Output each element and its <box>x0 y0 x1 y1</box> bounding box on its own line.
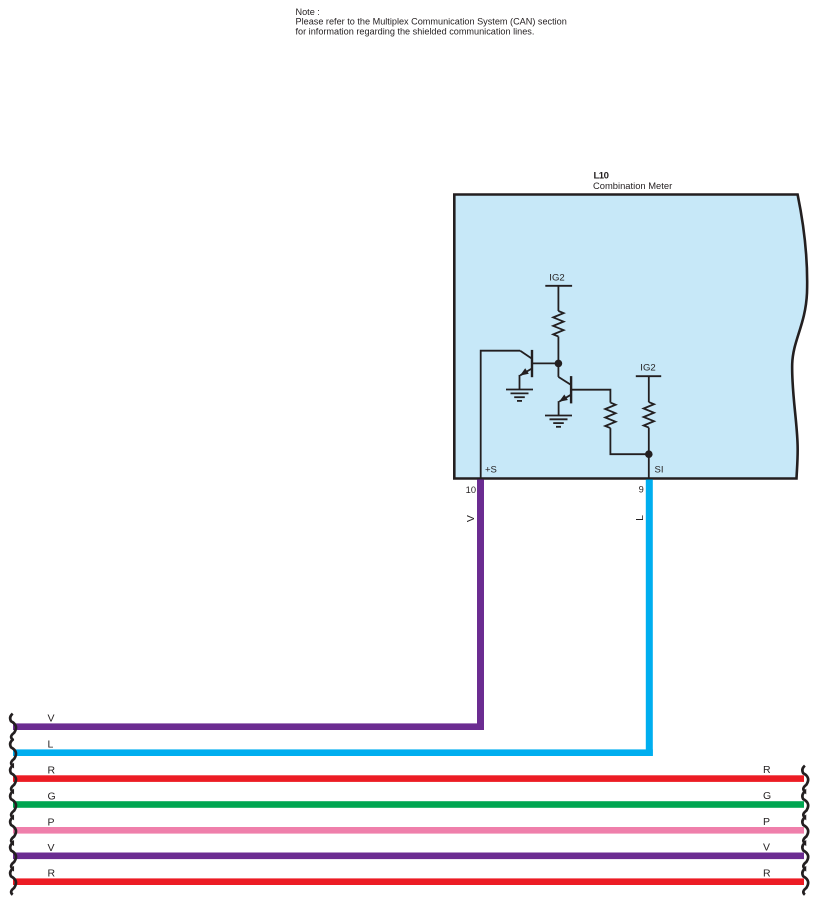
svg-text:R: R <box>763 867 771 879</box>
wire +S pin to Q1 collector <box>481 351 521 479</box>
wire IG2 bar to resistor R3 <box>648 376 650 402</box>
svg-text:for information regarding the: for information regarding the shielded c… <box>296 27 535 37</box>
power IG2 (left branch) <box>545 272 572 286</box>
svg-text:SI: SI <box>655 465 664 476</box>
svg-text:R: R <box>48 868 56 880</box>
svg-text:+S: +S <box>485 465 497 476</box>
svg-text:9: 9 <box>639 485 644 495</box>
svg-text:G: G <box>763 790 771 802</box>
wire V (violet) from pin 10 <box>13 480 484 731</box>
svg-text:R: R <box>48 765 56 777</box>
svg-text:L: L <box>634 515 646 521</box>
wire color labels left <box>48 713 56 880</box>
transistor Q2 <box>558 376 571 415</box>
wire IG2 bar to resistor <box>557 286 559 311</box>
svg-text:V: V <box>48 842 55 854</box>
wire node to SI pin <box>648 454 650 478</box>
resistor R2 <box>605 403 615 429</box>
svg-text:Please refer to the Multiplex: Please refer to the Multiplex Communicat… <box>296 17 567 27</box>
svg-text:L: L <box>48 739 54 751</box>
wire R (red) row 3 <box>13 775 804 782</box>
node SI junction <box>645 450 653 458</box>
wire V (violet) row 6 <box>13 853 804 860</box>
svg-text:V: V <box>465 515 477 522</box>
svg-text:R: R <box>763 764 771 776</box>
ground (Q1 emitter) <box>506 390 533 401</box>
note text <box>296 7 567 37</box>
svg-text:IG2: IG2 <box>640 363 655 374</box>
svg-text:IG2: IG2 <box>549 272 564 283</box>
break symbol right (wire bundle continuation) <box>802 766 808 895</box>
svg-text:P: P <box>763 816 770 828</box>
transistor Q1 <box>520 350 533 390</box>
wire color labels right <box>763 764 771 879</box>
svg-text:Combination Meter: Combination Meter <box>593 180 672 191</box>
wire Q2 base to resistor R2 <box>571 390 610 403</box>
connector box L10 Combination Meter <box>454 195 807 479</box>
svg-text:V: V <box>763 841 770 853</box>
resistor (left IG2 branch) <box>553 311 563 337</box>
svg-text:G: G <box>48 791 56 803</box>
wire resistor to node <box>557 337 559 364</box>
wire R3 to node SI <box>648 428 650 455</box>
svg-text:10: 10 <box>466 485 476 495</box>
resistor R3 <box>644 402 654 428</box>
wire R (red) row 7 <box>13 878 804 885</box>
wire P (pink) row 5 <box>13 827 804 834</box>
node (Q1 base junction) <box>555 360 563 368</box>
wire Q1 base to node <box>532 362 558 364</box>
svg-text:P: P <box>48 816 55 828</box>
svg-text:Note :: Note : <box>296 7 320 17</box>
wire node to Q2 collector <box>557 363 559 377</box>
break symbol left (wire bundle continuation) <box>10 714 16 895</box>
power IG2 (right branch) <box>636 363 661 377</box>
wire G (green) row 4 <box>13 801 804 808</box>
wire L (blue) from pin 9 <box>13 480 653 757</box>
ground (Q2 emitter) <box>545 416 572 427</box>
svg-text:V: V <box>48 713 55 725</box>
wire R2 to node SI <box>610 428 648 454</box>
